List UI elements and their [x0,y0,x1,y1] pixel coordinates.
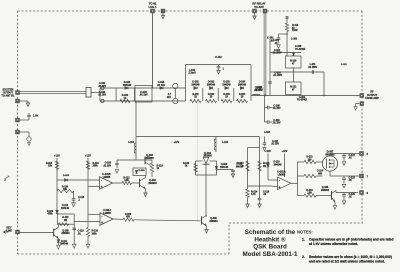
svg-text:2N3904: 2N3904 [61,232,70,235]
svg-text:.01 16V: .01 16V [103,165,111,167]
svg-text:LM358: LM358 [103,212,111,215]
svg-text:1N4149: 1N4149 [191,83,200,86]
svg-text:R-133: R-133 [306,190,313,192]
svg-text:1kV: 1kV [167,97,172,99]
svg-text:.01 25V: .01 25V [272,108,280,110]
svg-text:R-131: R-131 [306,157,313,159]
svg-text:L-106: L-106 [264,132,271,134]
svg-text:1M: 1M [240,166,243,168]
svg-text:D-102: D-102 [63,175,70,177]
svg-text:Q-108: Q-108 [322,187,329,189]
svg-text:R-110: R-110 [290,61,297,63]
svg-text:+12V: +12V [282,150,288,153]
svg-text:R-114: R-114 [62,185,69,188]
svg-text:.01 250V: .01 250V [273,75,283,77]
svg-text:1.: 1. [302,237,305,241]
svg-text:C-103: C-103 [99,92,106,94]
svg-text:at 1 kV unless otherwise noted: at 1 kV unless otherwise noted. [309,242,358,246]
svg-text:+12V: +12V [85,155,91,158]
svg-text:R-121: R-121 [123,177,130,179]
svg-text:NOTES:: NOTES: [297,230,313,235]
svg-text:C-118: C-118 [263,191,270,193]
svg-text:D-103: D-103 [223,82,230,84]
svg-text:1N4149: 1N4149 [207,83,216,86]
svg-text:2N3904: 2N3904 [209,220,218,223]
svg-text:L-201: L-201 [291,39,298,41]
svg-text:C-124: C-124 [317,170,324,173]
svg-text:D-104: D-104 [239,81,246,84]
svg-text:Capacitor values are in µF (mi: Capacitor values are in µF (microfarads)… [309,237,394,241]
svg-text:R-130: R-130 [125,214,132,216]
svg-text:TO #1: TO #1 [149,2,157,6]
svg-text:Schematic of the: Schematic of the [245,229,296,236]
svg-text:.01 1kV: .01 1kV [255,90,263,92]
svg-text:D-103: D-103 [139,170,146,172]
svg-text:L-111: L-111 [310,64,316,66]
svg-text:R-123: R-123 [237,163,244,165]
svg-text:470k: 470k [47,213,53,216]
svg-text:QSK Board: QSK Board [253,244,287,251]
svg-text:and are rated at 1/2 watt unle: and are rated at 1/2 watt unless otherwi… [309,260,385,264]
svg-text:1N4149: 1N4149 [123,84,132,87]
svg-text:R-129: R-129 [47,211,54,213]
svg-text:100k: 100k [92,233,98,235]
svg-text:LUG 1: LUG 1 [149,5,157,9]
svg-text:R-124: R-124 [251,190,258,193]
svg-text:D-105: D-105 [221,164,228,166]
svg-text:C-106: C-106 [105,163,112,165]
svg-text:1N4149: 1N4149 [222,83,231,86]
svg-text:+12V: +12V [174,142,180,144]
svg-text:.01 1kV: .01 1kV [98,86,106,88]
svg-text:C-102: C-102 [99,83,106,85]
svg-text:+12V: +12V [54,155,60,158]
svg-text:TO-SPKR: TO-SPKR [295,49,306,51]
svg-text:R-128: R-128 [92,231,99,233]
svg-text:Q-105: Q-105 [62,230,69,232]
svg-text:+: + [101,185,103,189]
svg-text:D-110: D-110 [274,162,281,164]
svg-text:1 kV: 1 kV [33,115,38,118]
svg-text:+: + [279,185,281,189]
svg-text:2.2mH: 2.2mH [188,72,195,75]
svg-text:.01 250V: .01 250V [308,67,318,69]
svg-text:1.8k: 1.8k [307,193,312,195]
svg-text:.01 1kV: .01 1kV [157,84,166,87]
svg-text:L-102: L-102 [222,142,229,144]
svg-text:C-104: C-104 [299,96,306,99]
svg-text:4.7k: 4.7k [251,193,256,196]
svg-text:+: + [101,221,103,225]
svg-text:C-125: C-125 [349,194,356,196]
svg-text:C-115: C-115 [78,231,85,233]
svg-text:.01 250V: .01 250V [272,53,282,55]
svg-text:C-102: C-102 [274,50,281,52]
svg-text:Resistor values are in ohms (k: Resistor values are in ohms (k = 1000, M… [309,255,392,259]
svg-text:D-112: D-112 [62,205,69,207]
svg-text:R-101: R-101 [192,94,199,96]
svg-text:C-122: C-122 [349,155,356,157]
svg-text:C-123: C-123 [349,178,356,180]
svg-text:D-102: D-102 [208,82,215,84]
svg-text:R-119: R-119 [157,165,164,167]
svg-text:L-111: L-111 [341,64,347,66]
svg-text:2N3904: 2N3904 [148,182,157,185]
svg-text:R-110: R-110 [292,25,299,27]
svg-text:LM358: LM358 [103,176,111,179]
svg-text:1N4149: 1N4149 [274,163,283,166]
svg-text:L-104: L-104 [128,141,135,144]
svg-text:C-112: C-112 [272,141,279,143]
svg-text:1M: 1M [64,220,67,222]
svg-text:RF RELAY: RF RELAY [252,2,265,6]
svg-text:Model SBA-2001-1: Model SBA-2001-1 [243,251,298,258]
svg-text:1N4149: 1N4149 [60,242,69,245]
svg-text:1/2W: 1/2W [292,30,298,32]
svg-text:1N4149: 1N4149 [220,166,229,169]
svg-text:R-115: R-115 [62,217,69,219]
svg-text:1N4149: 1N4149 [238,83,247,86]
svg-text:2N3904: 2N3904 [321,189,330,192]
svg-text:C-113: C-113 [215,56,222,59]
svg-text:Heathkit ®: Heathkit ® [254,235,286,243]
svg-text:FROM AMP: FROM AMP [365,97,379,100]
svg-text:R-104: R-104 [239,93,246,96]
svg-text:R-120: R-120 [183,163,190,165]
svg-text:TO-SPKR: TO-SPKR [297,100,308,102]
svg-text:C-116: C-116 [78,197,85,199]
svg-text:C-107: C-107 [273,40,280,42]
svg-text:TO ANT: TO ANT [254,5,264,9]
svg-text:2.: 2. [302,255,305,259]
svg-text:.01 25V: .01 25V [271,144,279,146]
svg-text:D-101: D-101 [192,82,199,84]
svg-text:Q-106: Q-106 [210,218,217,220]
svg-text:1M: 1M [263,166,266,168]
svg-text:C-108: C-108 [273,105,280,107]
svg-text:.01 1kV: .01 1kV [98,95,106,97]
svg-text:C-101: C-101 [267,38,274,40]
svg-text:100k: 100k [93,166,99,168]
svg-text:1N4149: 1N4149 [61,207,70,210]
svg-text:R-103: R-103 [223,94,230,96]
svg-text:.01 1kV: .01 1kV [139,94,148,97]
svg-text:R-112: R-112 [290,87,297,89]
svg-text:R-113: R-113 [46,163,53,165]
svg-text:R-118: R-118 [93,163,100,165]
svg-text:C-110: C-110 [273,120,280,122]
svg-text:TO ANT RL: TO ANT RL [1,95,15,98]
svg-text:.01 25V: .01 25V [272,123,280,125]
svg-text:C-108: C-108 [295,46,302,48]
svg-text:C-109: C-109 [256,87,263,89]
svg-text:+12V: +12V [265,150,271,153]
svg-text:C-103: C-103 [274,73,281,75]
svg-text:LM358: LM358 [278,173,286,176]
svg-text:R-102: R-102 [208,94,215,96]
